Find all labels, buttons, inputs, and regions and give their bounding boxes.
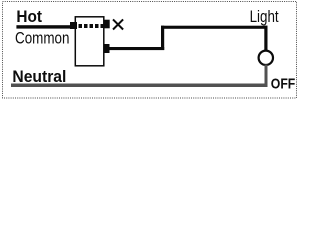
wire: switch output horizontal xyxy=(109,47,164,50)
terminal: switched output (right middle) xyxy=(104,44,110,53)
wire: top run to light xyxy=(161,26,268,29)
svg-text:OFF: OFF xyxy=(271,75,296,92)
wire: vertical riser xyxy=(161,26,164,50)
wire: hot feed xyxy=(16,25,72,28)
wire: lamp to neutral xyxy=(265,65,268,86)
switch S1 body xyxy=(75,17,104,66)
lamp L1 xyxy=(259,51,273,65)
open contact X xyxy=(113,19,123,29)
svg-text:Neutral: Neutral xyxy=(12,68,66,86)
svg-text:Common: Common xyxy=(15,30,70,48)
svg-text:Hot: Hot xyxy=(16,8,42,26)
terminal: top right xyxy=(104,20,110,29)
wire: neutral run xyxy=(11,84,268,88)
terminal: common (left) xyxy=(70,22,77,29)
wire: drop to lamp xyxy=(264,26,267,51)
svg-text:Light: Light xyxy=(250,8,279,26)
dotted internal connection xyxy=(79,24,105,28)
